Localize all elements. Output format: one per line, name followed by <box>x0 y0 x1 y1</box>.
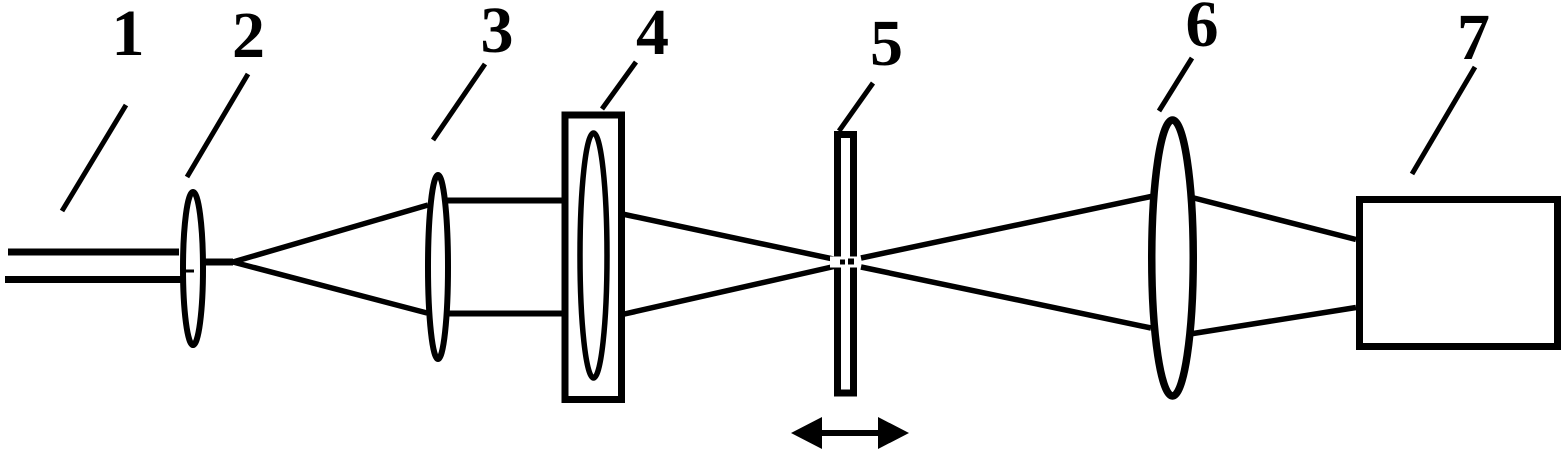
svg-text:2: 2 <box>232 0 265 72</box>
ray element4 to slit upper <box>620 214 845 262</box>
lens 6 <box>1152 120 1194 396</box>
svg-text:7: 7 <box>1457 1 1490 74</box>
element 4 lens ellipse <box>580 133 607 378</box>
ray focus to lens 3 lower <box>233 262 427 313</box>
ray focus to lens 3 upper <box>233 205 428 262</box>
ray lens3 to element4 upper <box>446 198 572 204</box>
slit aperture dot right <box>848 259 854 265</box>
fiber 1 top line <box>8 249 179 256</box>
translation arrow left head <box>791 417 822 449</box>
ray slit to lens6 lower <box>861 267 1151 328</box>
leader line 7 <box>1412 67 1475 174</box>
ray lens6 to detector lower <box>1190 308 1356 335</box>
ray lens6 to detector upper <box>1190 197 1356 240</box>
leader line 5 <box>839 83 873 131</box>
ray element4 to slit lower <box>620 264 845 315</box>
slit 5 aperture gap <box>830 257 861 268</box>
leader line 6 <box>1159 58 1192 111</box>
ray slit to lens6 upper <box>861 197 1151 259</box>
lens 2 axis tick <box>184 270 194 273</box>
translation arrow shaft <box>820 430 880 436</box>
fiber 1 bottom line <box>5 276 181 283</box>
ray lens3 to element4 lower <box>446 311 572 317</box>
lens 2 <box>183 192 203 345</box>
element 4 mount rectangle <box>565 115 622 400</box>
slit 5 plate <box>838 135 854 394</box>
svg-text:5: 5 <box>870 7 903 80</box>
translation arrow right head <box>878 417 909 449</box>
detector 7 box <box>1360 200 1558 347</box>
slit aperture dot left <box>840 260 845 265</box>
leader line 4 <box>602 62 636 109</box>
leader line 1 <box>62 105 126 211</box>
focus pinch after lens 2 <box>203 259 233 266</box>
svg-text:4: 4 <box>636 0 669 69</box>
leader line 3 <box>433 64 485 140</box>
svg-text:3: 3 <box>481 0 514 67</box>
lens 3 <box>428 175 448 359</box>
svg-text:6: 6 <box>1186 0 1219 61</box>
svg-text:1: 1 <box>112 0 145 70</box>
leader line 2 <box>187 74 248 177</box>
